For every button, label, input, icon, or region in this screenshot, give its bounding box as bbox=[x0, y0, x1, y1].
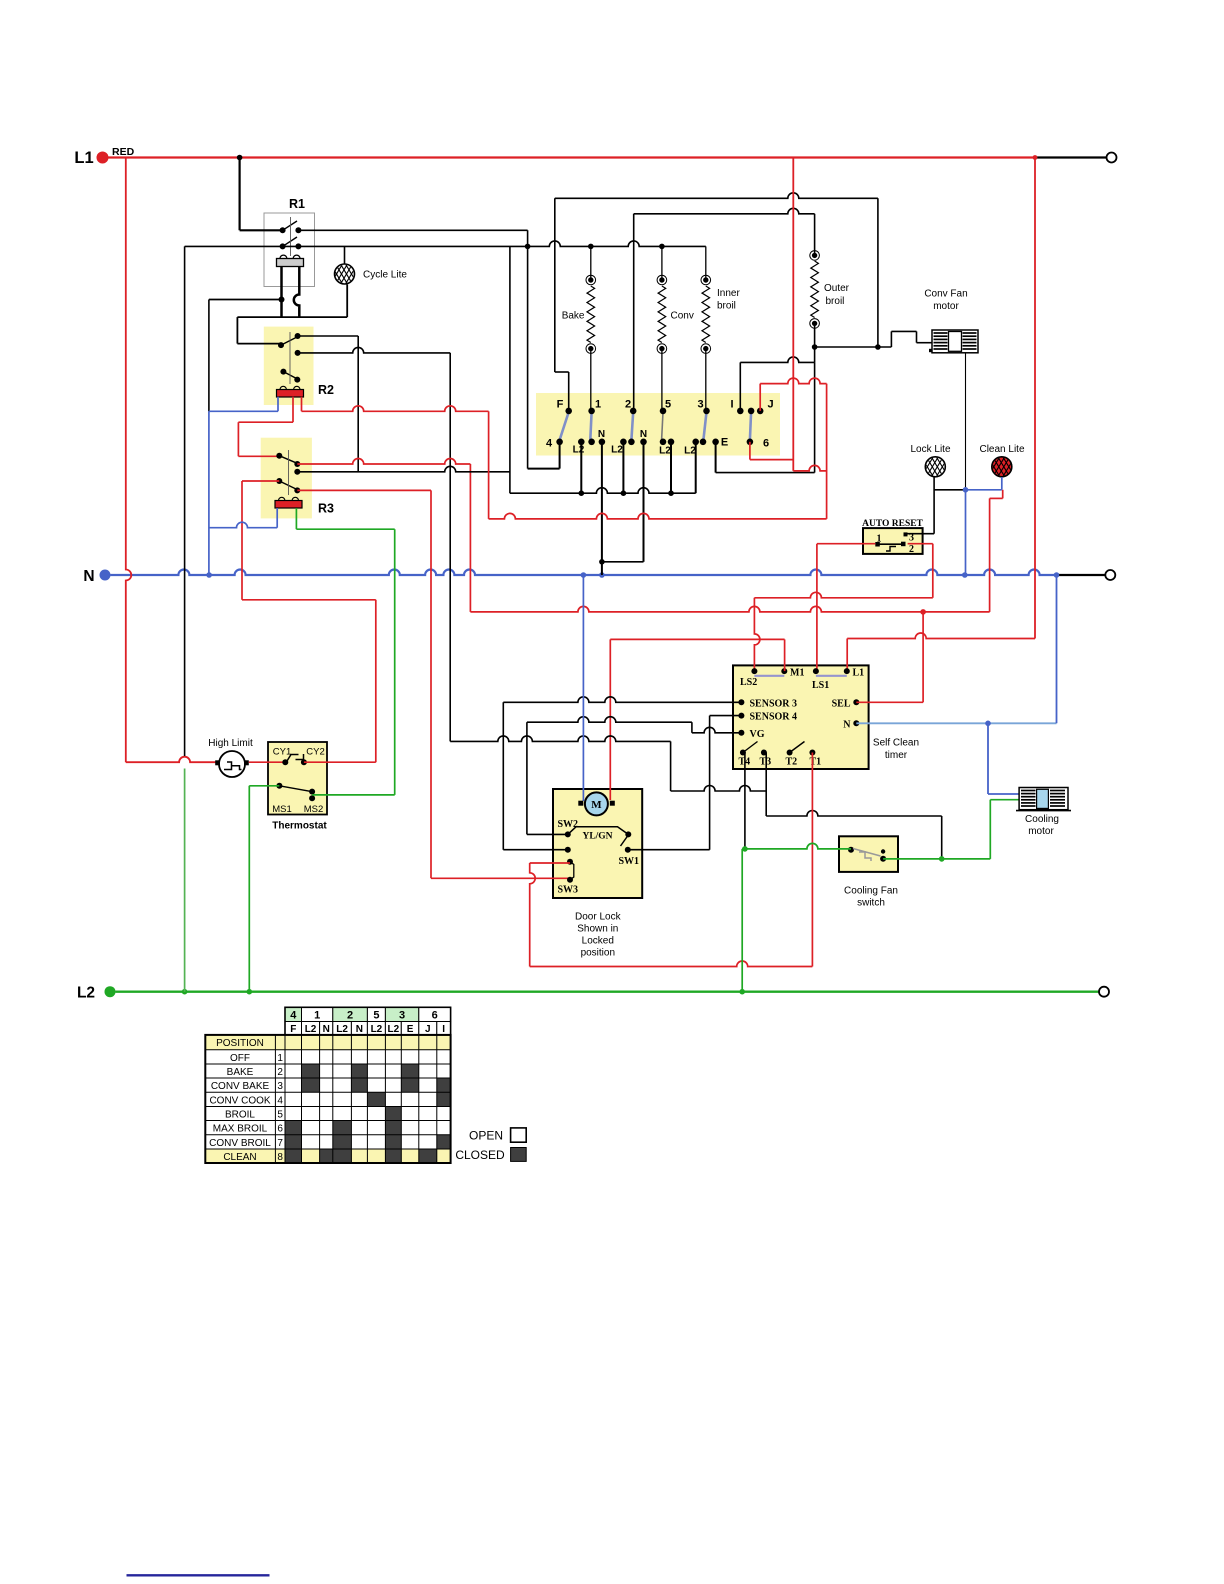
svg-text:motor: motor bbox=[1028, 826, 1054, 837]
relay R2 linkage bbox=[289, 332, 291, 384]
svg-text:CLEAN: CLEAN bbox=[223, 1152, 256, 1163]
motor Conv Fan icon bbox=[929, 349, 933, 352]
node L2 open terminal bbox=[1099, 987, 1109, 997]
svg-text:YL/GN: YL/GN bbox=[582, 832, 612, 842]
motor Cooling icon bbox=[1016, 810, 1071, 812]
svg-text:L2: L2 bbox=[573, 445, 585, 456]
relay R1 contact 1 bbox=[280, 227, 286, 233]
svg-text:E: E bbox=[407, 1024, 414, 1035]
door lock SW2 contacts bbox=[565, 831, 571, 837]
wire timer N blue bbox=[856, 722, 1056, 724]
svg-text:F: F bbox=[557, 399, 564, 411]
wire R3 coil right lead green bbox=[295, 508, 297, 529]
svg-text:5: 5 bbox=[277, 1110, 283, 1121]
svg-text:SW1: SW1 bbox=[619, 856, 640, 867]
timer T4 blade bbox=[743, 742, 758, 753]
wire R2 long vertical down bbox=[449, 353, 451, 742]
cooling fan switch box bbox=[839, 836, 898, 872]
wire R1 coil left lead bbox=[280, 267, 283, 317]
wire M1 red to door motor bbox=[784, 639, 786, 671]
wire L1 bus black tail bbox=[1035, 156, 1107, 158]
svg-text:BAKE: BAKE bbox=[227, 1067, 254, 1078]
table switch position chart bbox=[285, 1007, 302, 1021]
node N open terminal bbox=[1105, 570, 1115, 580]
svg-text:SW3: SW3 bbox=[558, 885, 579, 896]
svg-text:VG: VG bbox=[750, 729, 765, 740]
svg-text:F: F bbox=[290, 1024, 296, 1035]
wire L2 bus vertical (line3 to bus) bbox=[509, 246, 511, 493]
thermostat CY contacts bbox=[282, 759, 288, 765]
svg-text:5: 5 bbox=[665, 399, 671, 411]
svg-text:Conv Fan: Conv Fan bbox=[924, 289, 967, 300]
wire blue node to N bus bbox=[965, 490, 967, 575]
timer terminal links bbox=[754, 675, 784, 677]
svg-text:J: J bbox=[425, 1024, 431, 1035]
wire T1 red down bbox=[811, 753, 813, 967]
relay R2 coil bbox=[277, 390, 304, 398]
relay R3 switch2 bbox=[276, 478, 282, 484]
wire conv fan motor to lamp node (thin) bbox=[965, 353, 967, 490]
node N junction dots bbox=[206, 572, 212, 578]
wire blue N to door motor bbox=[582, 575, 584, 801]
svg-text:2: 2 bbox=[347, 1009, 353, 1021]
svg-text:Outer: Outer bbox=[824, 283, 850, 294]
door lock box bbox=[553, 789, 642, 898]
svg-text:timer: timer bbox=[885, 750, 908, 761]
relay R1 coil bbox=[277, 259, 304, 267]
wire line2 (terminal 2 to outer broil top) bbox=[634, 208, 815, 213]
wire red to R2 coil (y519) bbox=[489, 513, 827, 519]
node L2 terminal bbox=[105, 986, 116, 997]
svg-text:L1: L1 bbox=[74, 149, 93, 167]
selector top terminal dots bbox=[565, 408, 572, 415]
svg-text:T3: T3 bbox=[760, 757, 772, 768]
svg-text:2: 2 bbox=[277, 1067, 283, 1078]
wire outer broil junction line bbox=[812, 344, 818, 350]
svg-text:L1: L1 bbox=[853, 668, 865, 679]
wire coil node to N (black upper) bbox=[208, 300, 210, 412]
wire R1 coil to R2 common bbox=[236, 317, 238, 344]
svg-text:3: 3 bbox=[277, 1081, 283, 1092]
relay R1 contact 2 bbox=[280, 243, 286, 249]
wire R3 coil left lead blue bbox=[276, 508, 278, 528]
selector blade J-6 bbox=[750, 412, 751, 440]
svg-text:LS1: LS1 bbox=[812, 680, 829, 691]
wire terminal 6 red bbox=[749, 442, 751, 460]
svg-text:POSITION: POSITION bbox=[216, 1038, 264, 1049]
wire green L2 to cooling fan switch bbox=[741, 849, 743, 992]
wire red 6/J joint to 826 bbox=[793, 465, 826, 470]
svg-text:Bake: Bake bbox=[562, 311, 585, 322]
svg-text:MAX BROIL: MAX BROIL bbox=[213, 1124, 268, 1135]
svg-text:LS2: LS2 bbox=[740, 677, 757, 688]
svg-text:CLOSED: CLOSED bbox=[455, 1148, 505, 1162]
wire R2 net to T3 (lower black) bbox=[450, 736, 670, 742]
svg-text:SENSOR 4: SENSOR 4 bbox=[750, 712, 798, 723]
node L2 junction dots bbox=[182, 989, 188, 995]
svg-text:CY1: CY1 bbox=[273, 747, 291, 758]
svg-text:N: N bbox=[843, 719, 851, 730]
svg-text:3: 3 bbox=[399, 1009, 405, 1021]
cooling fan switch contacts bbox=[848, 847, 854, 853]
svg-text:Thermostat: Thermostat bbox=[272, 821, 327, 832]
timer T2 blade bbox=[790, 742, 805, 753]
wire E net (outer broil down to E) bbox=[814, 362, 816, 472]
svg-text:1: 1 bbox=[277, 1053, 283, 1064]
wire SEL red bbox=[856, 701, 923, 703]
thermostat MS contacts bbox=[276, 783, 282, 789]
relay R2 switch1 bbox=[278, 342, 284, 348]
svg-text:CY2: CY2 bbox=[306, 747, 324, 758]
svg-text:L2: L2 bbox=[371, 1024, 383, 1035]
wire SW2 to VG bbox=[527, 833, 568, 835]
wire clean lite red down bbox=[1002, 490, 1004, 499]
svg-text:L2: L2 bbox=[336, 1024, 348, 1035]
selector bottom terminal dots bbox=[556, 439, 563, 446]
svg-text:T1: T1 bbox=[810, 757, 822, 768]
selector blade F-4 bbox=[560, 412, 569, 440]
resistor Outer broil element bbox=[810, 251, 820, 261]
svg-text:OFF: OFF bbox=[230, 1053, 250, 1064]
svg-text:I: I bbox=[730, 399, 733, 411]
wire red down to door lock SW3 bbox=[430, 490, 432, 878]
wire Cycle Lite bottom lead bbox=[346, 285, 348, 318]
wire lock lite node to blue node bbox=[934, 489, 965, 491]
svg-text:position: position bbox=[581, 948, 615, 959]
bottom rule line bbox=[127, 1574, 270, 1576]
wire red J net down bbox=[826, 384, 828, 519]
wire R1 contact2 line (L2 net) bbox=[185, 245, 299, 247]
switch High Limit bbox=[219, 751, 245, 777]
relay R2 switch2 bbox=[280, 369, 286, 375]
svg-text:BROIL: BROIL bbox=[225, 1110, 255, 1121]
wire conv fan motor leads bbox=[891, 330, 916, 332]
wire R3 sw2 throw red to SW3 net bbox=[297, 489, 431, 491]
wire L1 bus (red) bbox=[108, 156, 1035, 158]
wire auto reset terminal2 red bbox=[908, 543, 933, 545]
svg-text:N: N bbox=[356, 1024, 363, 1035]
svg-text:6: 6 bbox=[277, 1124, 283, 1135]
svg-text:2: 2 bbox=[909, 544, 914, 555]
svg-text:AUTO RESET: AUTO RESET bbox=[862, 519, 923, 529]
svg-text:L2: L2 bbox=[611, 445, 623, 456]
selector blade 1 bbox=[590, 412, 591, 440]
svg-text:N: N bbox=[83, 568, 94, 585]
svg-text:Cooling Fan: Cooling Fan bbox=[844, 886, 898, 897]
svg-text:broil: broil bbox=[717, 301, 736, 312]
wire terminal J red riser bbox=[759, 384, 761, 411]
svg-text:Cooling: Cooling bbox=[1025, 814, 1059, 825]
wire red H_a to LS2 bbox=[754, 592, 932, 598]
svg-text:Self Clean: Self Clean bbox=[873, 738, 919, 749]
door lock SW1 contacts bbox=[625, 831, 631, 837]
node N terminal bbox=[100, 570, 111, 581]
wire selector N stub 1 bbox=[601, 442, 603, 575]
wire R3 sw1 throw red to timer net bbox=[297, 459, 470, 464]
wire L2 black bus bbox=[510, 488, 696, 494]
thermostat box bbox=[268, 742, 327, 815]
wire N bus (blue) bbox=[111, 570, 1058, 576]
wire selector L2 stubs bbox=[580, 442, 582, 493]
relay R1 box bbox=[264, 213, 315, 287]
svg-text:5: 5 bbox=[373, 1009, 379, 1021]
svg-text:L2: L2 bbox=[305, 1024, 317, 1035]
relay R1 linkage bbox=[290, 217, 292, 256]
wire T4 to green node bbox=[744, 753, 746, 849]
svg-text:4: 4 bbox=[290, 1009, 297, 1021]
svg-text:N: N bbox=[323, 1024, 330, 1035]
wire L1 right red drop bbox=[1034, 158, 1036, 639]
svg-text:J: J bbox=[767, 399, 773, 411]
svg-text:Lock Lite: Lock Lite bbox=[910, 444, 950, 455]
door lock SW3 contacts bbox=[567, 859, 573, 865]
svg-text:T2: T2 bbox=[786, 757, 798, 768]
svg-text:Door Lock: Door Lock bbox=[575, 912, 622, 923]
relay R2 box bbox=[264, 327, 314, 405]
wire red H_b (to LS2/SEL net) bbox=[470, 606, 989, 612]
wire left drop black (R1 net down) bbox=[184, 246, 186, 756]
selector blade 2 bbox=[631, 412, 633, 440]
timer Self Clean box bbox=[733, 665, 869, 769]
svg-text:CONV COOK: CONV COOK bbox=[209, 1095, 270, 1106]
auto reset box bbox=[863, 528, 923, 554]
relay R3 box bbox=[261, 438, 312, 519]
wire lock lite to auto reset bbox=[933, 477, 935, 534]
svg-text:N: N bbox=[640, 429, 647, 440]
wire R3 sw1 throw black to L2 bus bbox=[297, 466, 510, 471]
svg-text:Clean Lite: Clean Lite bbox=[979, 444, 1024, 455]
resistor Inner broil element bbox=[705, 246, 707, 280]
wire R2 sw1 throw1 right bbox=[298, 335, 359, 337]
svg-text:Locked: Locked bbox=[582, 936, 614, 947]
svg-text:MS1: MS1 bbox=[272, 804, 292, 815]
svg-text:M: M bbox=[591, 799, 602, 811]
svg-text:N: N bbox=[598, 429, 605, 440]
wire R1 coil right lead bbox=[294, 267, 300, 318]
wire R1 contact1 to selector common bbox=[298, 229, 527, 231]
selector switch block bbox=[536, 393, 780, 456]
wire blue to cooling motor bbox=[987, 723, 989, 794]
svg-text:L2: L2 bbox=[77, 985, 95, 1002]
wire high limit to CY1 bbox=[249, 761, 285, 763]
svg-text:6: 6 bbox=[763, 438, 769, 450]
wire Cycle Lite top stub bbox=[344, 246, 346, 264]
svg-text:motor: motor bbox=[933, 301, 959, 312]
svg-text:R3: R3 bbox=[318, 502, 334, 516]
wire line1 (F to outer broil) bbox=[555, 193, 878, 199]
wire SW3 red down to T1 line bbox=[530, 863, 536, 967]
svg-text:1: 1 bbox=[314, 1009, 320, 1021]
svg-text:4: 4 bbox=[277, 1095, 283, 1106]
wire SENSOR4 to SW1 bbox=[710, 715, 742, 717]
selector blade 5 bbox=[662, 412, 663, 440]
wire I terminal riser bbox=[739, 362, 741, 411]
relay R3 linkage bbox=[288, 450, 290, 495]
wire selector common drop (to terminal 4) bbox=[527, 230, 529, 468]
svg-text:Inner: Inner bbox=[717, 288, 740, 299]
wire T3 to cooling fan node bbox=[765, 753, 767, 817]
svg-text:I: I bbox=[442, 1024, 445, 1035]
wire L2 bus (green) bbox=[116, 991, 1099, 993]
resistor Conv element bbox=[661, 246, 663, 280]
resistor Bake element bbox=[590, 246, 592, 280]
svg-text:E: E bbox=[721, 437, 728, 449]
svg-text:M1: M1 bbox=[790, 668, 804, 679]
wire red drop to H_b bbox=[469, 464, 471, 612]
selector blade 3 bbox=[703, 412, 706, 440]
svg-text:R2: R2 bbox=[318, 383, 334, 397]
svg-text:Shown in: Shown in bbox=[577, 924, 618, 935]
svg-text:CONV BROIL: CONV BROIL bbox=[209, 1138, 271, 1149]
svg-text:CONV BAKE: CONV BAKE bbox=[211, 1081, 270, 1092]
svg-text:L2: L2 bbox=[388, 1024, 400, 1035]
wire R2 coil to R3 common (red) bbox=[292, 397, 294, 422]
wire red to LS1 (via N hop) bbox=[816, 544, 818, 671]
svg-text:L2: L2 bbox=[659, 446, 671, 457]
wire coil node to N (blue lower) bbox=[208, 411, 210, 575]
svg-text:SW2: SW2 bbox=[558, 819, 579, 830]
svg-text:R1: R1 bbox=[289, 197, 305, 211]
wire clean lite blue link bbox=[1001, 477, 1003, 490]
wire SW3 top red bbox=[530, 862, 570, 864]
wire L1 drop to R1 bbox=[237, 155, 243, 161]
svg-text:6: 6 bbox=[432, 1009, 438, 1021]
wire CY2 red bbox=[304, 761, 376, 763]
wire R2 coil left lead blue bbox=[277, 397, 279, 412]
wire R2 coil right to J net (red) bbox=[301, 397, 303, 412]
motor door lock M bbox=[578, 801, 583, 806]
wire red L1 drop right of selector bbox=[792, 158, 794, 471]
svg-text:Cycle Lite: Cycle Lite bbox=[363, 270, 407, 281]
wire selector N stub 2 bbox=[643, 442, 645, 562]
wire MS2 green bbox=[312, 794, 395, 796]
wire R2 vertical to R3 line bbox=[357, 336, 359, 472]
svg-text:MS2: MS2 bbox=[304, 804, 324, 815]
wire green switch to cooling motor bbox=[883, 858, 990, 860]
svg-text:8: 8 bbox=[277, 1152, 283, 1163]
wire MS1 green to L2 bbox=[249, 785, 279, 787]
wire R3 sw2 common red left bbox=[242, 480, 279, 482]
wire N bus black tail bbox=[1058, 574, 1106, 576]
svg-text:SEL: SEL bbox=[832, 698, 851, 709]
auto reset internal contact bbox=[879, 543, 903, 545]
svg-text:4: 4 bbox=[546, 438, 553, 450]
svg-text:switch: switch bbox=[857, 898, 885, 909]
svg-text:L2: L2 bbox=[684, 446, 696, 457]
svg-text:1: 1 bbox=[595, 399, 601, 411]
wire auto reset terminal1 red bbox=[817, 543, 875, 545]
svg-text:OPEN: OPEN bbox=[469, 1129, 503, 1143]
timer terminal dots bbox=[751, 668, 757, 674]
svg-text:RED: RED bbox=[112, 146, 135, 158]
wire L1 to High Limit (red) bbox=[126, 158, 132, 763]
svg-text:SENSOR 3: SENSOR 3 bbox=[750, 698, 798, 709]
relay R3 switch1 bbox=[276, 453, 282, 459]
wire SENSOR3 to SW2 bbox=[503, 697, 741, 703]
svg-text:broil: broil bbox=[826, 296, 845, 307]
svg-text:2: 2 bbox=[625, 399, 631, 411]
svg-text:7: 7 bbox=[277, 1138, 283, 1149]
wire red down to thermostat CY2 bbox=[241, 481, 243, 600]
node L1 open terminal bbox=[1107, 153, 1117, 163]
node L1 terminal bbox=[97, 152, 109, 164]
relay R3 coil bbox=[275, 501, 302, 509]
svg-text:Conv: Conv bbox=[671, 311, 694, 322]
svg-text:High Limit: High Limit bbox=[208, 738, 253, 749]
wire R2 sw1 throw2 right bbox=[298, 347, 451, 353]
svg-text:3: 3 bbox=[697, 399, 703, 411]
wire left drop green to L2 bbox=[184, 769, 186, 992]
